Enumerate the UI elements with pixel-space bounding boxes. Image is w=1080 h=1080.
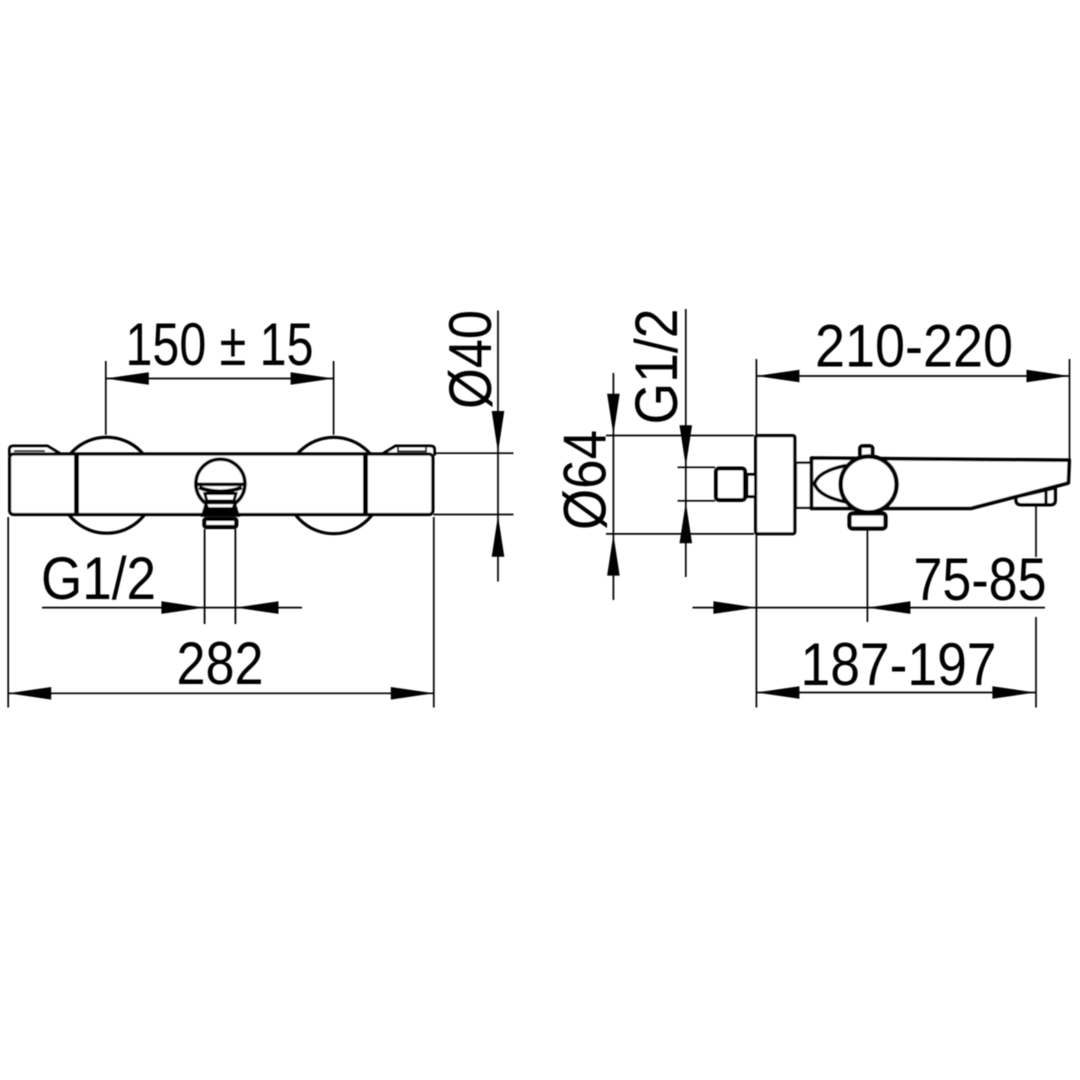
svg-text:282: 282 — [177, 630, 264, 697]
svg-text:Ø40: Ø40 — [437, 310, 504, 409]
svg-text:75-85: 75-85 — [914, 546, 1047, 613]
svg-text:G1/2: G1/2 — [623, 309, 690, 425]
svg-text:Ø64: Ø64 — [552, 430, 619, 530]
svg-text:150 ± 15: 150 ± 15 — [126, 311, 314, 378]
svg-text:187-197: 187-197 — [801, 631, 997, 698]
svg-text:G1/2: G1/2 — [41, 545, 156, 612]
svg-text:210-220: 210-220 — [815, 313, 1013, 380]
